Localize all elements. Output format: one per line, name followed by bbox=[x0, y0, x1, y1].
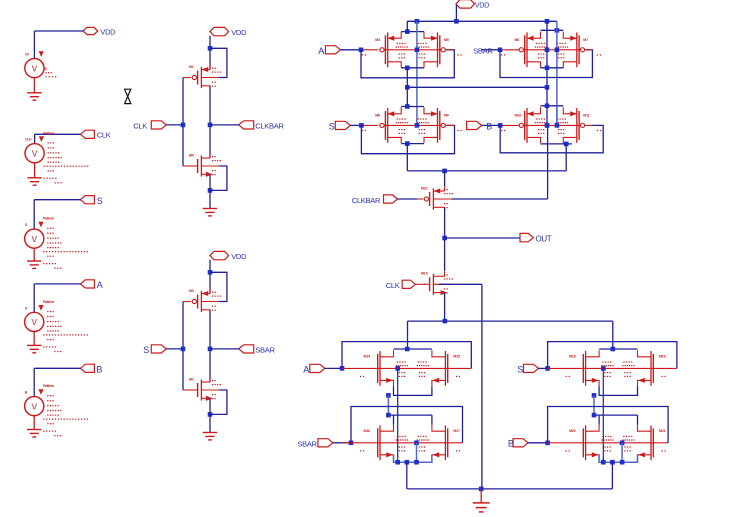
svg-text:M1: M1 bbox=[189, 65, 194, 69]
nmos pair M20 M21 (B2 pull-down) bbox=[548, 425, 669, 461]
node pass source bbox=[442, 169, 447, 174]
wire VDD rail bbox=[407, 20, 557, 22]
node SBAR2 gate junction bbox=[349, 441, 354, 446]
svg-text:VDD: VDD bbox=[100, 27, 116, 36]
wire A-cell top to rail bbox=[406, 21, 408, 31]
svg-text:CLKBAR: CLKBAR bbox=[352, 196, 381, 205]
wire SBAR spine bbox=[546, 21, 548, 87]
node B-cell top bbox=[545, 104, 550, 109]
inout pin VDD (top) bbox=[456, 0, 489, 9]
wire SBAR junction to gate bbox=[500, 49, 521, 51]
node B2 gate junction bbox=[545, 441, 550, 446]
svg-text:V: V bbox=[31, 235, 37, 244]
wire V3 to ground bbox=[33, 332, 35, 346]
node B2 trio mid bbox=[610, 460, 615, 465]
svg-text:Pattern: Pattern bbox=[43, 384, 54, 388]
wire B source to pin bbox=[34, 368, 80, 396]
svg-text:S: S bbox=[329, 122, 335, 132]
pmos M3 (S inverter pull-up) bbox=[189, 289, 221, 315]
svg-text:M16: M16 bbox=[364, 429, 371, 433]
svg-text:VDD: VDD bbox=[475, 0, 489, 9]
wire A-cell bulk column bbox=[416, 21, 418, 125]
node SBAR2 trio mid bbox=[405, 460, 410, 465]
ground below V4 bbox=[27, 430, 41, 437]
node B2-cell bulk bbox=[620, 441, 625, 446]
input pin SBAR2 (pull-down) bbox=[297, 439, 333, 449]
node SBAR gate junction bbox=[498, 48, 503, 53]
wire OUT to pass drain bbox=[444, 238, 446, 271]
node B2-cell top bbox=[592, 413, 597, 418]
node SBAR-cell top bbox=[555, 28, 560, 33]
svg-text:SBAR: SBAR bbox=[297, 440, 317, 449]
node S-cell bulk bbox=[415, 123, 420, 128]
svg-text:S: S bbox=[517, 364, 523, 374]
wire output to CLKBAR pin bbox=[210, 124, 239, 126]
wire left spine row1-row2 bbox=[406, 68, 408, 107]
svg-text:M0: M0 bbox=[189, 153, 194, 157]
nmos pair M18 M19 (S2 pull-down) bbox=[548, 350, 677, 386]
svg-text:M8: M8 bbox=[375, 114, 380, 118]
svg-text:A: A bbox=[318, 46, 324, 56]
input pin CLK (source) bbox=[80, 130, 110, 140]
input pin S (inverter) bbox=[143, 345, 166, 355]
svg-text:V: V bbox=[32, 64, 38, 73]
input pin A (row1) bbox=[318, 46, 340, 56]
node SBAR mid spine bbox=[545, 48, 550, 53]
wire V0 to ground bbox=[33, 78, 35, 93]
ground below V2 bbox=[27, 261, 41, 268]
wire S2-cell bottom collection bbox=[599, 386, 637, 395]
wire CLKBAR bulk to spine bbox=[452, 125, 548, 199]
wire SBAR right gate lead bbox=[585, 49, 592, 51]
input pin CLK (pass) bbox=[386, 280, 416, 290]
input pin S (row2) bbox=[329, 121, 351, 131]
wire S-cell top collection bbox=[401, 106, 424, 108]
wire link row1-row2 bbox=[407, 86, 547, 88]
wire S pin to gate junction bbox=[350, 124, 378, 126]
node SBAR mid bulk bbox=[555, 48, 560, 53]
wire A source to pin bbox=[34, 284, 80, 312]
node SBAR-cell bottom bbox=[545, 66, 550, 71]
node S-cell bottom bbox=[405, 141, 410, 146]
node rail-bulkA bbox=[415, 19, 420, 24]
wire S-cell bottom drop bbox=[406, 144, 408, 171]
wire link row2 to pass bbox=[407, 170, 566, 172]
wire CLK pass bulk to ground rail bbox=[439, 284, 482, 489]
svg-text:Pattern: Pattern bbox=[43, 217, 54, 221]
wire V2 to ground bbox=[33, 248, 35, 261]
node SBAR2 trio left bbox=[395, 460, 400, 465]
node rail-riser bbox=[454, 19, 459, 24]
svg-text:CLK: CLK bbox=[25, 138, 32, 142]
wire B2-cell top collection bbox=[594, 415, 638, 425]
node OUT bbox=[442, 236, 447, 241]
wire SBAR-cell gate loop bbox=[500, 50, 592, 78]
wire B-cell bottom collection bbox=[541, 143, 573, 145]
svg-text:A: A bbox=[97, 280, 103, 290]
svg-text:CLK: CLK bbox=[386, 281, 400, 290]
ground below V3 bbox=[27, 345, 41, 352]
pmos M12 (CLKBAR pass) bbox=[421, 186, 453, 212]
wire NMOS bulk loop inverter2 bbox=[210, 390, 227, 414]
svg-text:A: A bbox=[303, 364, 309, 374]
svg-text:M6: M6 bbox=[515, 38, 520, 42]
input pin B (row2) bbox=[467, 121, 493, 131]
node A2-cell bulk bbox=[395, 366, 400, 371]
input pin A2 (pull-down) bbox=[303, 364, 325, 374]
wire S-cell gate loop bbox=[361, 125, 454, 153]
input pin S (source) bbox=[80, 196, 102, 206]
svg-text:M3: M3 bbox=[189, 289, 194, 293]
voltage source V4 (vpulse B) bbox=[25, 384, 88, 436]
node VDD inverter1 bbox=[208, 46, 213, 51]
wire A2-SBAR2 spine bbox=[387, 395, 389, 415]
wire VDD source to pin bbox=[34, 31, 83, 59]
input pin CLKBAR bbox=[352, 195, 398, 205]
node link right bbox=[545, 85, 550, 90]
wire output to SBAR pin bbox=[210, 348, 239, 350]
node CLK gate bbox=[181, 123, 186, 128]
wire S right gate lead bbox=[446, 124, 455, 126]
input pin B2 (pull-down) bbox=[508, 439, 528, 449]
wire SBAR2-cell gate loop bbox=[351, 407, 463, 443]
node B2 trio right bbox=[620, 460, 625, 465]
svg-text:M7: M7 bbox=[583, 38, 588, 42]
wire PMOS bulk loop inverter2 bbox=[210, 272, 227, 301]
wire B2-cell gate loop bbox=[548, 407, 669, 443]
net label SBAR (row1) bbox=[473, 46, 500, 55]
nmos M2 (S inverter pull-down) bbox=[189, 377, 221, 403]
svg-text:Pattern: Pattern bbox=[43, 300, 54, 304]
wire link to N-groups bbox=[408, 320, 613, 322]
wire S2-cell top collection bbox=[599, 348, 637, 350]
node A gate junction bbox=[359, 48, 364, 53]
pmos pair M8 M9 (S pull-up) bbox=[362, 107, 462, 143]
wire A-cell gate loop bbox=[361, 50, 454, 78]
wire S pin to gates bbox=[166, 302, 191, 391]
wire pass drain to OUT bbox=[444, 207, 446, 238]
wire SBAR2-cell top collection bbox=[388, 415, 432, 425]
wire SBAR2 to ground rail bbox=[406, 462, 408, 489]
node B-cell bottom bbox=[564, 142, 569, 147]
hourglass marker bbox=[125, 89, 131, 103]
node B mid spine bbox=[545, 123, 550, 128]
svg-text:M20: M20 bbox=[569, 429, 576, 433]
ground inverter1 bbox=[203, 209, 217, 216]
nmos pair M16 M17 (SBAR2 pull-down) bbox=[342, 425, 463, 461]
node S gate bbox=[181, 347, 186, 352]
svg-text:CLK: CLK bbox=[133, 121, 147, 130]
wire B pin to gate junction bbox=[482, 124, 522, 126]
svg-text:M9: M9 bbox=[444, 114, 449, 118]
node S2 gate junction bbox=[545, 366, 550, 371]
wire pass source to link bbox=[444, 293, 446, 322]
pmos M1 (CLK inverter pull-up) bbox=[189, 65, 221, 91]
svg-text:S: S bbox=[143, 345, 149, 355]
svg-text:M15: M15 bbox=[453, 355, 460, 359]
wire NMOS source to ground inv1 bbox=[209, 174, 211, 208]
svg-text:B: B bbox=[486, 122, 492, 132]
node SBAR2 trio right bbox=[414, 460, 419, 465]
wire SBAR-cell top collection bbox=[541, 29, 564, 31]
ground (main rail) bbox=[473, 503, 490, 512]
wire CLK pin to gates bbox=[166, 78, 191, 167]
svg-text:M2: M2 bbox=[189, 377, 194, 381]
svg-text:SBAR: SBAR bbox=[473, 46, 493, 55]
wire A2 pin to gate junction bbox=[325, 367, 342, 369]
ground below V1 bbox=[27, 178, 41, 185]
svg-text:V: V bbox=[32, 149, 38, 158]
wire VDD pin to PMOS source (inv2) bbox=[209, 260, 211, 294]
wire B-cell gate loop bbox=[500, 125, 603, 152]
wire CLKBAR pin to gate bbox=[398, 198, 424, 200]
node S gate junction bbox=[359, 123, 364, 128]
wire V1 to ground bbox=[34, 163, 36, 178]
input pin B (source) bbox=[80, 364, 102, 374]
input pin S2 (pull-down) bbox=[517, 364, 538, 374]
svg-text:V: V bbox=[31, 402, 37, 411]
svg-text:M19: M19 bbox=[659, 355, 666, 359]
voltage source V3 (vpulse A) bbox=[25, 300, 88, 352]
svg-text:M4: M4 bbox=[375, 38, 380, 42]
svg-text:M11: M11 bbox=[583, 114, 589, 118]
wire PMOS bulk loop inverter1 bbox=[210, 48, 227, 77]
svg-text:CLK: CLK bbox=[97, 131, 111, 140]
wire S2-cell gate loop bbox=[548, 342, 677, 369]
node SBAR2-cell bulk bbox=[414, 441, 419, 446]
wire S-cell bottom collection bbox=[401, 143, 424, 145]
svg-text:M21: M21 bbox=[659, 429, 666, 433]
svg-text:Pattern: Pattern bbox=[43, 131, 54, 135]
voltage source V2 (vpulse S) bbox=[25, 217, 88, 269]
wire A right gate lead bbox=[446, 49, 454, 51]
svg-text:VDD: VDD bbox=[231, 252, 247, 261]
wire SBAR-cell bottom collection bbox=[541, 67, 564, 69]
voltage source V1 (vpulse CLK) bbox=[25, 131, 88, 183]
wire A-cell bottom collection bbox=[401, 67, 424, 69]
wire B bulk stub bbox=[556, 106, 558, 126]
wire drop to NA cell bbox=[407, 321, 409, 349]
node B mid bulk bbox=[555, 123, 560, 128]
node SBAR output bbox=[208, 347, 213, 352]
wire A2-cell bottom collection bbox=[394, 386, 432, 395]
wire B spine bbox=[546, 106, 548, 126]
wire ground rail bbox=[407, 488, 612, 490]
node SBAR2-cell top bbox=[386, 413, 391, 418]
wire B2 pin to gate junction bbox=[528, 442, 548, 444]
svg-text:M12: M12 bbox=[421, 186, 428, 190]
wire OUT bbox=[445, 237, 520, 239]
pmos pair M6 M7 (SBAR pull-up) bbox=[501, 32, 601, 68]
wire B-cell bottom drop bbox=[565, 144, 567, 171]
svg-text:M17: M17 bbox=[453, 429, 460, 433]
node A-cell bulk bbox=[415, 48, 420, 53]
wire SBAR2-cell bottom collection bbox=[394, 455, 432, 463]
wire VDD pin to PMOS source bbox=[209, 36, 211, 70]
output pin CLKBAR bbox=[239, 121, 285, 131]
svg-text:S: S bbox=[97, 196, 103, 206]
pmos pair M4 M5 (A pull-up) bbox=[362, 32, 462, 68]
svg-text:B: B bbox=[96, 364, 102, 374]
nmos M13 (CLK pass) bbox=[421, 271, 453, 297]
node A2-cell top bbox=[405, 347, 410, 352]
wire S source to pin bbox=[34, 200, 80, 229]
node S-cell top bbox=[405, 104, 410, 109]
svg-text:V0: V0 bbox=[25, 53, 29, 57]
inout pin VDD (source V0) bbox=[83, 27, 116, 36]
wire S2-B2 spine bbox=[593, 395, 595, 415]
wire S2 bulk column bbox=[602, 368, 604, 462]
wire A pin to gate junction bbox=[340, 49, 378, 51]
output pin SBAR bbox=[239, 345, 276, 355]
inout pin VDD (CLK inverter) bbox=[210, 27, 247, 37]
nmos pair M14 M15 (A2 pull-down) bbox=[342, 350, 471, 386]
wire drop to NS cell bbox=[612, 321, 614, 349]
node S2-cell bulk bbox=[601, 366, 606, 371]
svg-text:M18: M18 bbox=[569, 355, 576, 359]
nmos M0 (CLK inverter pull-down) bbox=[189, 153, 221, 179]
wire inverter1 output column bbox=[209, 86, 211, 158]
wire V4 to ground bbox=[33, 416, 35, 430]
wire A2 bulk column bbox=[397, 368, 399, 462]
svg-text:M5: M5 bbox=[444, 38, 449, 42]
node VDD inverter2 bbox=[208, 270, 213, 275]
wire VDD riser bbox=[455, 5, 457, 22]
wire B-cell top collection bbox=[541, 105, 564, 107]
svg-text:OUT: OUT bbox=[536, 235, 552, 244]
ground inverter2 bbox=[203, 433, 217, 440]
node rail-SBAR spine bbox=[545, 19, 550, 24]
svg-text:CLKBAR: CLKBAR bbox=[255, 121, 284, 130]
wire NMOS source to ground inv2 bbox=[209, 398, 211, 432]
wire right spine row1-row2 bbox=[546, 87, 548, 106]
wire CLK source to pin bbox=[35, 134, 81, 143]
ground below V0 bbox=[27, 93, 41, 100]
node A-cell bottom bbox=[405, 66, 410, 71]
wire inverter2 output column bbox=[209, 310, 211, 382]
wire SBAR2 pin to gate junction bbox=[333, 442, 351, 444]
svg-text:M10: M10 bbox=[515, 114, 522, 118]
wire CLK pin to gate bbox=[415, 283, 425, 285]
input pin CLK (inverter) bbox=[133, 121, 166, 131]
node ground rail bbox=[479, 487, 484, 492]
wire A2-cell gate loop bbox=[342, 342, 471, 369]
node B gate junction bbox=[498, 123, 503, 128]
input pin A (source) bbox=[80, 280, 102, 290]
node pass-NMOS link bbox=[443, 319, 448, 324]
inout pin VDD (S inverter) bbox=[210, 251, 247, 261]
wire A-cell top collection bbox=[401, 31, 424, 33]
node A2 gate junction bbox=[340, 366, 345, 371]
pmos pair M10 M11 (B pull-up) bbox=[501, 107, 601, 143]
svg-text:SBAR: SBAR bbox=[255, 345, 275, 354]
wire B2-cell bottom collection bbox=[599, 455, 637, 463]
node B2 trio left bbox=[601, 460, 606, 465]
node S2-cell top bbox=[611, 347, 616, 352]
wire B2 to ground rail bbox=[611, 462, 613, 489]
voltage source V0 (vdc VDD) bbox=[25, 52, 56, 78]
svg-text:M13: M13 bbox=[421, 272, 428, 276]
wire pass source drop bbox=[444, 171, 446, 186]
wire rail to ground symbol bbox=[480, 489, 482, 503]
wire NMOS bulk loop inverter1 bbox=[210, 166, 227, 190]
node A-cell top bbox=[405, 29, 410, 34]
wire SBAR bulk drop bbox=[556, 21, 558, 125]
node CLKBAR output bbox=[208, 123, 213, 128]
node A2-cell bottom bbox=[386, 393, 391, 398]
wire B right gate lead bbox=[585, 124, 592, 126]
svg-text:M14: M14 bbox=[364, 355, 371, 359]
wire S2 pin to gate junction bbox=[539, 367, 548, 369]
node NMOS source inverter2 bbox=[208, 412, 213, 417]
wire A2-cell top collection bbox=[394, 348, 432, 350]
node S2-cell bottom bbox=[592, 393, 597, 398]
svg-text:V: V bbox=[31, 318, 37, 327]
node link left bbox=[405, 85, 410, 90]
wire SBAR2 bulk stub bbox=[416, 443, 418, 462]
node NMOS source inverter1 bbox=[208, 188, 213, 193]
output pin OUT bbox=[520, 233, 552, 243]
svg-text:VDD: VDD bbox=[231, 28, 247, 37]
wire B2 bulk stub bbox=[621, 443, 623, 462]
